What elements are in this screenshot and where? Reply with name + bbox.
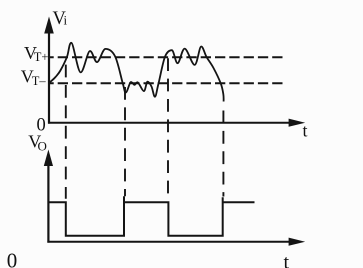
svg-text:i: i <box>64 13 68 28</box>
svg-text:T–: T– <box>32 74 47 88</box>
svg-text:T+: T+ <box>34 50 49 64</box>
svg-text:t: t <box>284 252 290 268</box>
svg-text:t: t <box>303 121 308 141</box>
svg-text:O: O <box>38 139 47 154</box>
svg-text:0: 0 <box>7 249 17 268</box>
